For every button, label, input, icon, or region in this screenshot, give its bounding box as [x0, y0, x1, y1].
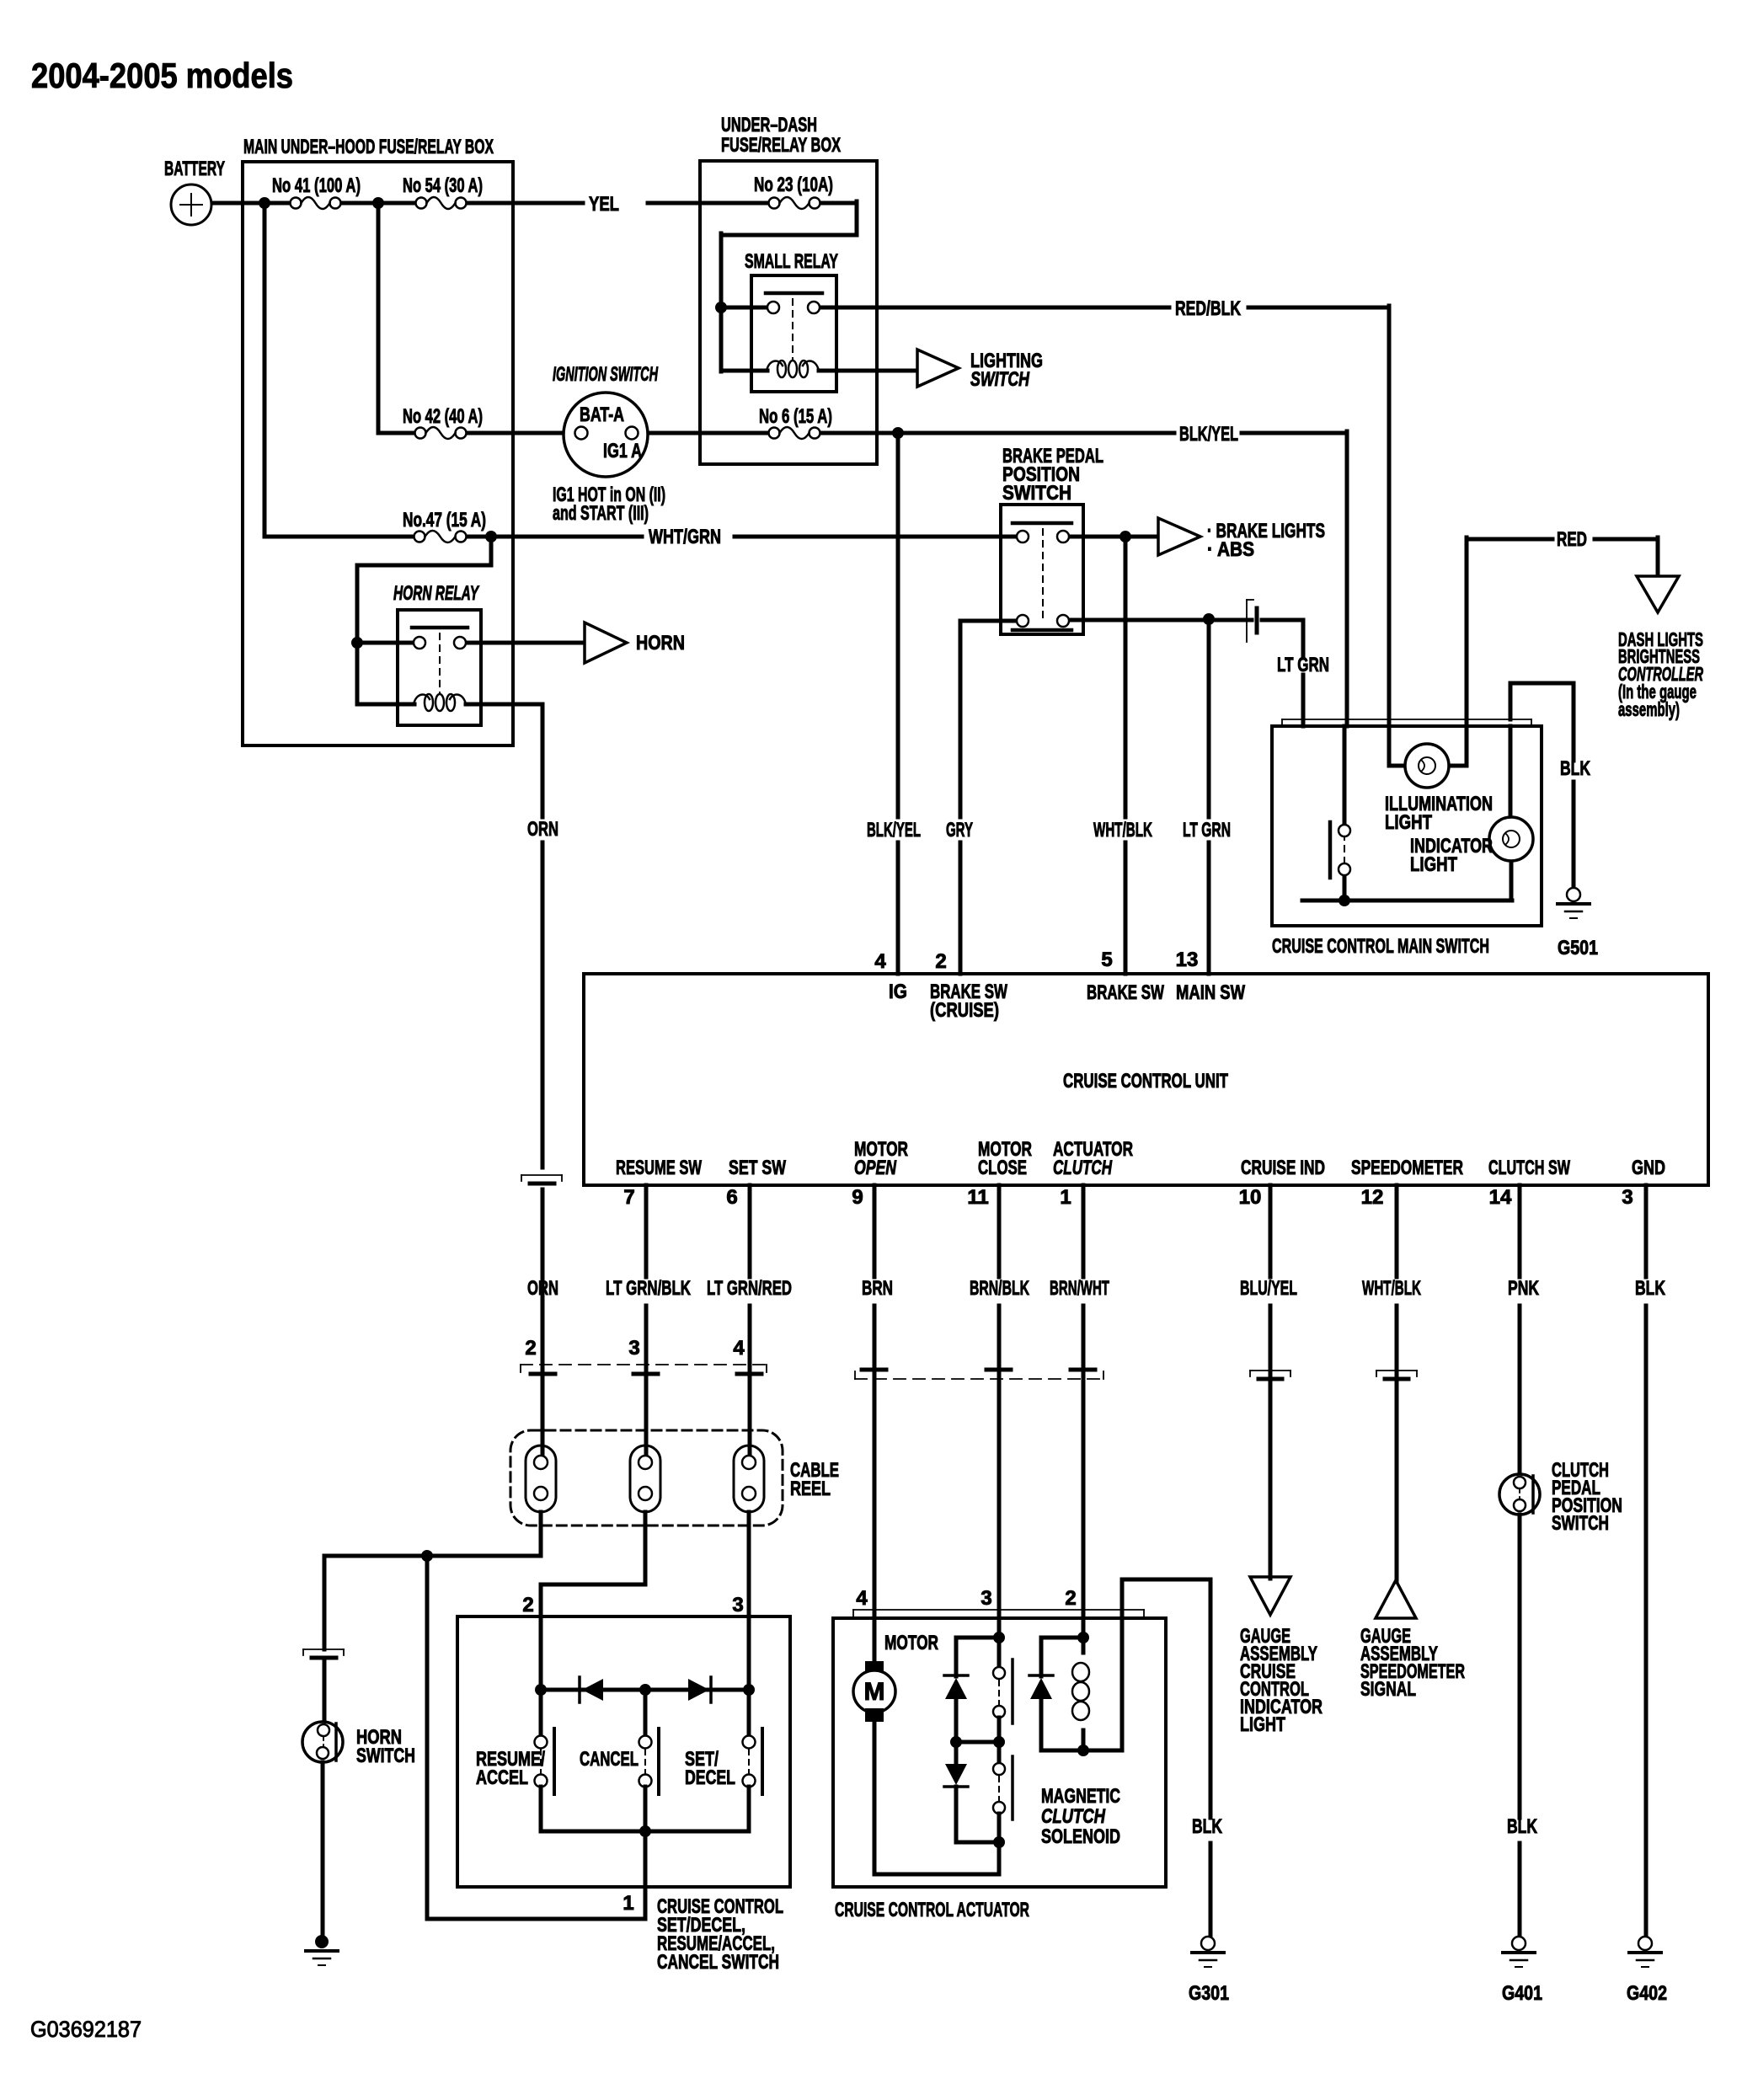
svg-text:1: 1: [1060, 1186, 1071, 1209]
svg-text:BLK: BLK: [1192, 1815, 1222, 1838]
svg-text:DECEL: DECEL: [685, 1766, 735, 1789]
svg-text:LT GRN: LT GRN: [1183, 819, 1231, 842]
svg-text:G402: G402: [1627, 1982, 1667, 2005]
svg-text:YEL: YEL: [589, 193, 619, 216]
svg-text:BLK/YEL: BLK/YEL: [867, 819, 921, 842]
svg-text:CRUISE CONTROL MAIN SWITCH: CRUISE CONTROL MAIN SWITCH: [1272, 935, 1489, 958]
svg-text:BATTERY: BATTERY: [164, 158, 225, 180]
svg-text:G401: G401: [1502, 1982, 1542, 2005]
svg-text:CANCEL SWITCH: CANCEL SWITCH: [657, 1951, 779, 1974]
svg-text:ACCEL: ACCEL: [476, 1766, 528, 1789]
svg-text:LT GRN/RED: LT GRN/RED: [707, 1277, 792, 1300]
svg-text:CLUTCH: CLUTCH: [1053, 1157, 1112, 1179]
svg-text:6: 6: [726, 1186, 737, 1209]
svg-text:BRN: BRN: [862, 1277, 893, 1300]
svg-text:ORN: ORN: [527, 818, 558, 841]
svg-text:assembly): assembly): [1618, 698, 1680, 720]
svg-text:LT GRN/BLK: LT GRN/BLK: [606, 1277, 691, 1300]
svg-text:RED/BLK: RED/BLK: [1175, 297, 1241, 320]
svg-text:14: 14: [1489, 1186, 1512, 1209]
svg-text:BRN/BLK: BRN/BLK: [970, 1277, 1029, 1300]
svg-text:IGNITION SWITCH: IGNITION SWITCH: [553, 363, 658, 386]
svg-text:13: 13: [1176, 948, 1199, 971]
svg-text:9: 9: [852, 1186, 863, 1209]
svg-text:BRN/WHT: BRN/WHT: [1050, 1277, 1109, 1300]
svg-text:HORN: HORN: [636, 632, 685, 655]
svg-text:M: M: [864, 1678, 885, 1706]
svg-text:SET SW: SET SW: [729, 1157, 786, 1179]
svg-text:5: 5: [1101, 948, 1112, 971]
svg-text:BLK: BLK: [1560, 757, 1590, 780]
svg-text:UNDER–DASH: UNDER–DASH: [721, 114, 817, 136]
svg-text:LIGHT: LIGHT: [1240, 1713, 1285, 1736]
svg-text:12: 12: [1361, 1186, 1384, 1209]
svg-text:SWITCH: SWITCH: [970, 368, 1029, 391]
svg-text:CLUTCH SW: CLUTCH SW: [1488, 1157, 1570, 1179]
svg-text:3: 3: [1622, 1186, 1632, 1209]
svg-text:SIGNAL: SIGNAL: [1360, 1678, 1416, 1701]
svg-text:WHT/BLK: WHT/BLK: [1093, 819, 1152, 842]
svg-text:and START (III): and START (III): [553, 502, 649, 525]
svg-text:IG1 A: IG1 A: [603, 440, 642, 462]
svg-text:SWITCH: SWITCH: [1552, 1512, 1609, 1535]
svg-text:MOTOR: MOTOR: [884, 1632, 938, 1654]
svg-text:SWITCH: SWITCH: [1002, 482, 1071, 505]
svg-text:3: 3: [981, 1587, 991, 1610]
svg-text:No 42 (40 A): No 42 (40 A): [403, 405, 483, 428]
svg-text:4: 4: [856, 1587, 868, 1610]
svg-text:RED: RED: [1557, 528, 1587, 551]
svg-text:No 6 (15 A): No 6 (15 A): [759, 405, 832, 428]
svg-text:4: 4: [874, 950, 886, 973]
svg-text:2004-2005 models: 2004-2005 models: [31, 56, 293, 95]
svg-text:LIGHT: LIGHT: [1385, 811, 1432, 834]
svg-text:HORN RELAY: HORN RELAY: [393, 582, 479, 605]
svg-text:MAIN SW: MAIN SW: [1176, 981, 1245, 1004]
svg-text:· ABS: · ABS: [1207, 538, 1254, 561]
svg-text:BRAKE SW: BRAKE SW: [1087, 981, 1164, 1004]
svg-text:G301: G301: [1189, 1982, 1229, 2005]
svg-text:IG: IG: [889, 981, 907, 1003]
svg-text:OPEN: OPEN: [854, 1157, 896, 1179]
svg-text:SOLENOID: SOLENOID: [1041, 1825, 1120, 1848]
svg-text:G03692187: G03692187: [30, 2017, 142, 2042]
svg-text:SWITCH: SWITCH: [356, 1745, 415, 1767]
svg-text:1: 1: [623, 1892, 633, 1915]
svg-text:GRY: GRY: [946, 819, 973, 842]
svg-text:11: 11: [967, 1186, 988, 1209]
svg-text:BAT-A: BAT-A: [580, 403, 624, 426]
svg-text:SMALL RELAY: SMALL RELAY: [745, 250, 838, 273]
svg-text:WHT/GRN: WHT/GRN: [649, 526, 721, 548]
svg-text:3: 3: [732, 1594, 743, 1616]
svg-text:SPEEDOMETER: SPEEDOMETER: [1351, 1157, 1463, 1179]
svg-text:CRUISE CONTROL UNIT: CRUISE CONTROL UNIT: [1063, 1070, 1228, 1093]
svg-text:FUSE/RELAY BOX: FUSE/RELAY BOX: [721, 134, 841, 157]
svg-text:WHT/BLK: WHT/BLK: [1362, 1277, 1421, 1300]
svg-text:GND: GND: [1632, 1157, 1665, 1179]
svg-text:No 41 (100 A): No 41 (100 A): [272, 174, 361, 197]
svg-text:(CRUISE): (CRUISE): [930, 999, 999, 1022]
svg-text:CRUISE CONTROL ACTUATOR: CRUISE CONTROL ACTUATOR: [835, 1899, 1029, 1921]
svg-text:BLK: BLK: [1507, 1815, 1537, 1838]
svg-text:2: 2: [1065, 1587, 1076, 1610]
svg-text:2: 2: [522, 1594, 533, 1616]
svg-text:BLU/YEL: BLU/YEL: [1240, 1277, 1297, 1300]
svg-text:CLUTCH: CLUTCH: [1041, 1805, 1106, 1828]
svg-text:MAIN UNDER–HOOD FUSE/RELAY BOX: MAIN UNDER–HOOD FUSE/RELAY BOX: [243, 136, 494, 158]
svg-text:BLK/YEL: BLK/YEL: [1179, 423, 1238, 446]
svg-text:G501: G501: [1558, 937, 1598, 959]
svg-text:CRUISE IND: CRUISE IND: [1241, 1157, 1325, 1179]
svg-text:PNK: PNK: [1508, 1277, 1539, 1300]
svg-text:7: 7: [623, 1186, 634, 1209]
svg-text:No.47 (15 A): No.47 (15 A): [403, 509, 486, 532]
svg-text:ORN: ORN: [527, 1277, 558, 1300]
svg-text:LT GRN: LT GRN: [1277, 654, 1329, 676]
svg-text:No 23 (10A): No 23 (10A): [754, 174, 833, 196]
svg-text:REEL: REEL: [790, 1477, 831, 1500]
svg-text:3: 3: [628, 1337, 639, 1360]
svg-text:10: 10: [1239, 1186, 1262, 1209]
svg-text:4: 4: [733, 1337, 745, 1360]
svg-text:No 54 (30 A): No 54 (30 A): [403, 174, 483, 197]
svg-text:CLOSE: CLOSE: [978, 1157, 1027, 1179]
svg-text:MAGNETIC: MAGNETIC: [1041, 1785, 1120, 1808]
svg-text:LIGHT: LIGHT: [1410, 853, 1457, 876]
svg-text:BLK: BLK: [1635, 1277, 1665, 1300]
svg-text:RESUME SW: RESUME SW: [616, 1157, 702, 1179]
svg-text:CANCEL: CANCEL: [580, 1748, 639, 1771]
svg-text:2: 2: [525, 1337, 536, 1360]
svg-text:2: 2: [935, 950, 946, 973]
